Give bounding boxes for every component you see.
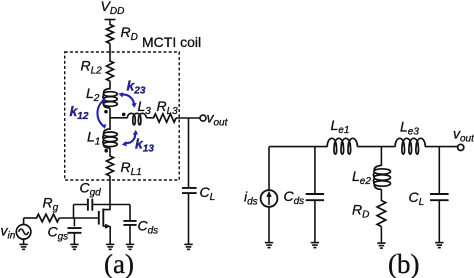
wire vin to Rg bbox=[24, 217, 37, 219]
wire RL1 to drain bbox=[104, 176, 110, 210]
wire CL to ground bbox=[188, 193, 190, 244]
vout terminal (a) bbox=[200, 115, 206, 121]
wire Le2 to RD bbox=[380, 189, 382, 201]
vout terminal (b) bbox=[458, 144, 464, 150]
svg-text:MCTI coil: MCTI coil bbox=[142, 34, 201, 50]
capacitor CL (a) bbox=[182, 188, 197, 193]
vin source bbox=[16, 225, 31, 240]
k12 arrowheads bbox=[101, 98, 106, 103]
inductor L2 bbox=[103, 89, 117, 108]
k23 arrowheads bbox=[118, 92, 123, 97]
svg-text:(a): (a) bbox=[104, 249, 134, 278]
ground CL (a) bbox=[184, 244, 192, 249]
ground vin bbox=[19, 244, 27, 249]
ground Cgs bbox=[70, 244, 78, 249]
inductor Le1 bbox=[327, 138, 357, 154]
gate node vertical wire bbox=[73, 205, 75, 219]
capacitor Cgd bbox=[88, 199, 92, 211]
ground Cds (a) bbox=[126, 244, 134, 249]
ground ids bbox=[265, 243, 273, 248]
current source ids branch bbox=[268, 147, 270, 243]
capacitor Cgs bbox=[73, 218, 75, 226]
wire VDD to RD bbox=[109, 20, 111, 26]
capacitor Cds (a) bbox=[129, 205, 131, 221]
wire node to CL bbox=[188, 118, 190, 187]
gate wire bbox=[59, 217, 99, 219]
resistor RL3 bbox=[154, 114, 177, 122]
svg-text:(b): (b) bbox=[388, 249, 419, 278]
inductor Le2 bbox=[373, 165, 390, 189]
L2 polarity dot bbox=[104, 110, 108, 114]
inductor Le3 bbox=[395, 138, 425, 154]
MCTI coil dashed box bbox=[65, 52, 180, 180]
coupling arc k13 bbox=[125, 133, 135, 143]
wire node to L3 bbox=[110, 117, 128, 119]
k13 arrowheads bbox=[133, 130, 138, 135]
wire RL2 to L2 bbox=[109, 81, 111, 90]
current source ids bbox=[261, 190, 278, 207]
VDD power bar bbox=[105, 19, 116, 21]
coupling arc k23 bbox=[122, 95, 134, 104]
transistor M1 gate bar bbox=[98, 211, 100, 225]
L3 polarity dot bbox=[122, 113, 126, 117]
transistor M1 channel bar bbox=[102, 209, 104, 227]
resistor Rg bbox=[37, 214, 60, 222]
drain node wire bbox=[74, 204, 131, 206]
ground source bbox=[106, 244, 114, 249]
coupling arc k12 bbox=[97, 101, 103, 127]
capacitor CL (b) branch bbox=[438, 147, 440, 194]
wire L1 to RL1 bbox=[109, 148, 111, 157]
L1 polarity dot bbox=[104, 149, 108, 153]
inductor L1 bbox=[103, 129, 117, 148]
Le2 branch wire bbox=[380, 147, 382, 166]
capacitor Cds (b) bbox=[314, 147, 316, 194]
transistor source lead bbox=[103, 225, 106, 227]
resistor RL1 bbox=[107, 156, 114, 176]
wire L2 to node bbox=[109, 108, 111, 130]
resistor RD bbox=[107, 25, 114, 44]
wire L3 to RL3 bbox=[146, 117, 154, 119]
wire RD to RL2 bbox=[109, 44, 111, 62]
resistor RL2 bbox=[107, 61, 114, 81]
inductor L3 bbox=[127, 113, 146, 125]
ground CL (b) bbox=[435, 243, 443, 248]
top wire (b) bbox=[269, 146, 458, 148]
ground Cds (b) bbox=[311, 243, 319, 248]
wire RD to ground bbox=[380, 227, 382, 243]
resistor RD (b) bbox=[377, 201, 386, 227]
wire RL3 to vout bbox=[176, 117, 200, 119]
ground RD (b) bbox=[377, 243, 385, 248]
